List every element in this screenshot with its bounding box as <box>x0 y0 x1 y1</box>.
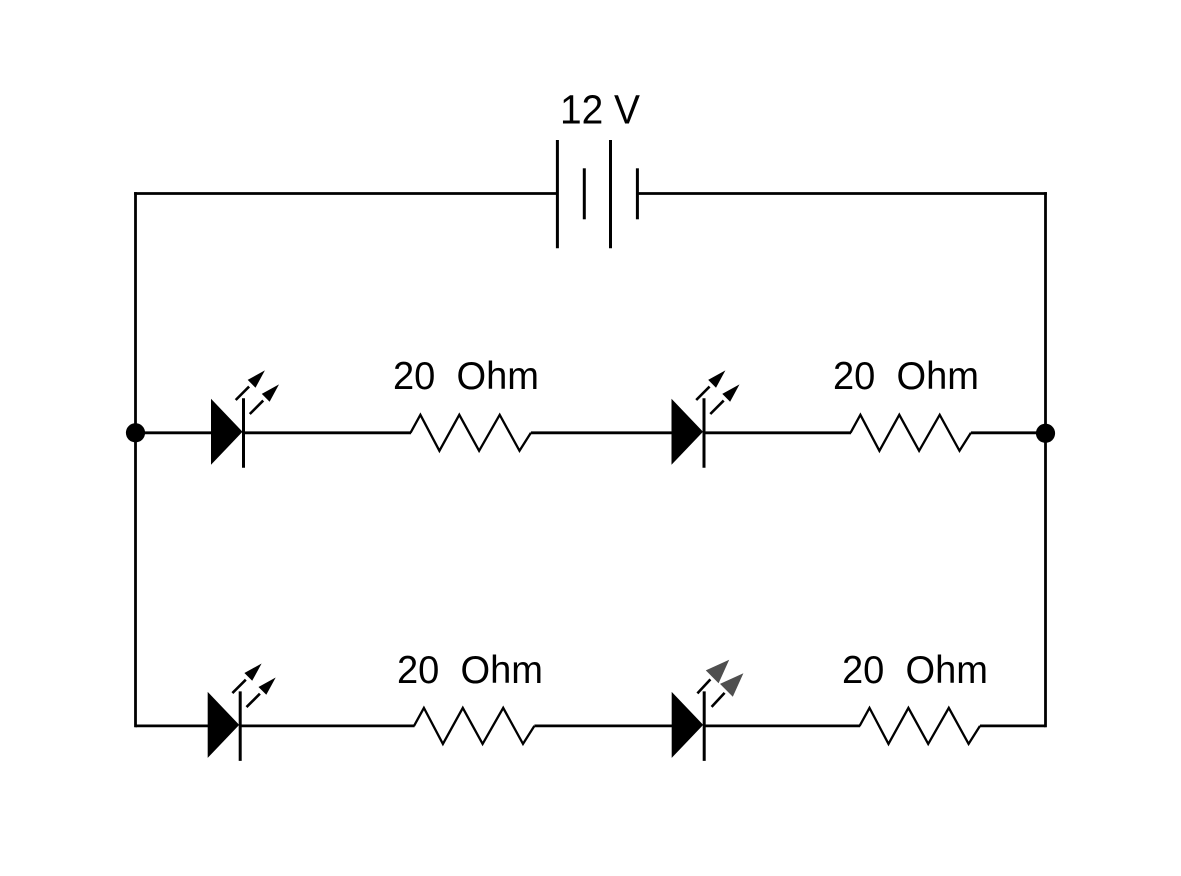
svg-text:20 Ohm: 20 Ohm <box>833 355 979 398</box>
wire: bottom row segment R3 to LED D4 <box>534 725 672 728</box>
LED D2: anode triangle <box>672 399 704 465</box>
LED D3: anode triangle <box>208 692 240 758</box>
wire: middle row segment from left node to LED D1 <box>136 431 213 434</box>
wire: middle row segment LED D1 to resistor R1 <box>244 431 412 434</box>
svg-text:20 Ohm: 20 Ohm <box>842 649 988 692</box>
resistor R3 zigzag <box>414 708 534 744</box>
LED D1: light arrow 1 <box>236 370 265 400</box>
wire: middle row segment R1 to LED D2 <box>531 431 673 434</box>
wire: top-right horizontal from battery <box>637 192 1047 195</box>
wire: middle row segment LED D2 to resistor R2 <box>704 431 851 434</box>
wire: bottom row segment LED D3 to resistor R3 <box>240 725 414 728</box>
LED D1: anode triangle <box>211 399 243 465</box>
wire: middle row segment R2 to right node <box>971 431 1046 434</box>
wire: left vertical rail <box>134 192 137 727</box>
wire: bottom row segment LED D4 to resistor R4 <box>704 725 860 728</box>
wire: top-left horizontal to battery <box>134 192 557 195</box>
LED D1: light arrow 2 <box>250 384 279 414</box>
battery B1: first short plate (-) <box>583 168 586 219</box>
resistor R1 zigzag <box>411 415 531 451</box>
svg-text:20 Ohm: 20 Ohm <box>393 355 539 398</box>
junction node dot: left (node A) <box>126 423 145 442</box>
svg-text:12 V: 12 V <box>560 87 641 133</box>
wire: bottom row segment from left rail to LED D3 <box>136 725 209 728</box>
resistor R4 zigzag <box>860 708 980 744</box>
LED D1: cathode bar <box>242 398 245 468</box>
resistor R2 zigzag <box>851 415 971 451</box>
LED D2: cathode bar <box>703 398 706 468</box>
LED D3: light arrow 1 <box>232 664 261 694</box>
LED D3: cathode bar <box>239 691 242 761</box>
wire: right vertical rail <box>1044 192 1047 727</box>
battery B1: right short plate (-) <box>636 168 639 219</box>
LED D4: grey light arrow 1 <box>697 660 729 694</box>
LED D4: anode triangle <box>672 692 704 758</box>
battery B1: second long plate (+) <box>609 140 612 248</box>
LED D3: light arrow 2 <box>247 678 276 708</box>
LED D2: light arrow 2 <box>710 384 739 414</box>
junction node dot: right (node B) <box>1036 424 1055 443</box>
LED D4: cathode bar <box>703 691 706 761</box>
LED D4: grey light arrow 2 <box>712 673 744 707</box>
battery B1 12V: left long plate (+) <box>556 140 559 248</box>
svg-text:20 Ohm: 20 Ohm <box>397 649 543 692</box>
wire: bottom row segment R4 to right rail <box>980 725 1046 728</box>
LED D2: light arrow 1 <box>696 370 725 400</box>
